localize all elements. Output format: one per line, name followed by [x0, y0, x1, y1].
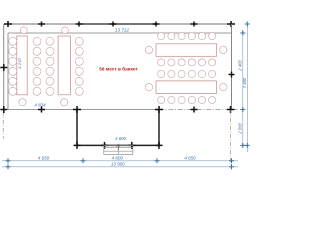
svg-text:7 480: 7 480 — [242, 77, 247, 88]
stairs up-arrow — [117, 144, 121, 150]
svg-text:13 900: 13 900 — [111, 162, 125, 167]
chairs col 3 (left of T2) — [46, 37, 54, 95]
chairs col 2 (right of T1) — [33, 37, 41, 95]
chairs row above T4 — [158, 70, 216, 77]
svg-text:56 мест в банкет: 56 мест в банкет — [99, 65, 138, 71]
top dimension ticks — [4, 21, 235, 27]
lower wing right wall — [158, 110, 160, 147]
T4 end chairs — [145, 83, 152, 90]
svg-text:4 650: 4 650 — [184, 156, 196, 161]
building top wall — [8, 32, 232, 34]
left dimension line — [3, 24, 5, 112]
building left wall — [7, 33, 9, 110]
furniture right group — [145, 32, 227, 103]
left axis dash-dot — [2, 112, 4, 139]
bottom dim line 1 — [2, 160, 238, 162]
porch / steps — [104, 145, 133, 154]
svg-text:4 600: 4 600 — [112, 156, 124, 161]
building right wall — [231, 24, 233, 110]
bottom dim line 2 (total) — [2, 166, 238, 168]
T3 end chairs — [145, 46, 152, 53]
left dim tick — [0, 64, 7, 71]
table T2 — [58, 36, 70, 95]
svg-text:4 600: 4 600 — [115, 136, 126, 141]
T1 foot chair — [19, 99, 26, 106]
svg-text:2 000: 2 000 — [237, 122, 242, 134]
T2 head chair — [62, 27, 69, 34]
table T4 — [156, 81, 217, 94]
chairs col 1 (left of T1) — [9, 37, 17, 95]
right dim line outer — [246, 24, 248, 152]
lower wing left wall — [76, 110, 78, 147]
svg-text:4 242: 4 242 — [17, 57, 22, 69]
right wall mid tick — [229, 72, 235, 78]
table T3 — [156, 44, 217, 57]
right dim line inner — [242, 30, 244, 148]
T1 head chair — [20, 27, 27, 34]
bottom wall ticks — [0, 106, 234, 113]
chairs col 4 (right of T2) — [75, 37, 83, 95]
right axis dash-dot below wall — [230, 110, 232, 166]
chairs row below T4 — [158, 96, 216, 103]
top dimension line — [8, 23, 232, 25]
chairs row above T3 — [158, 32, 216, 39]
lower wing bottom wall — [76, 144, 159, 146]
table T1 — [17, 36, 27, 95]
T2 foot chair — [61, 99, 68, 106]
svg-text:4 650: 4 650 — [38, 156, 50, 161]
building bottom wall — [1, 109, 8, 111]
chairs row below T3 — [158, 59, 216, 66]
svg-text:2 400: 2 400 — [237, 60, 242, 72]
svg-text:4 834: 4 834 — [34, 103, 46, 108]
wing corner ticks — [73, 106, 163, 149]
svg-text:13 712: 13 712 — [115, 28, 129, 33]
furniture left group — [9, 27, 84, 106]
